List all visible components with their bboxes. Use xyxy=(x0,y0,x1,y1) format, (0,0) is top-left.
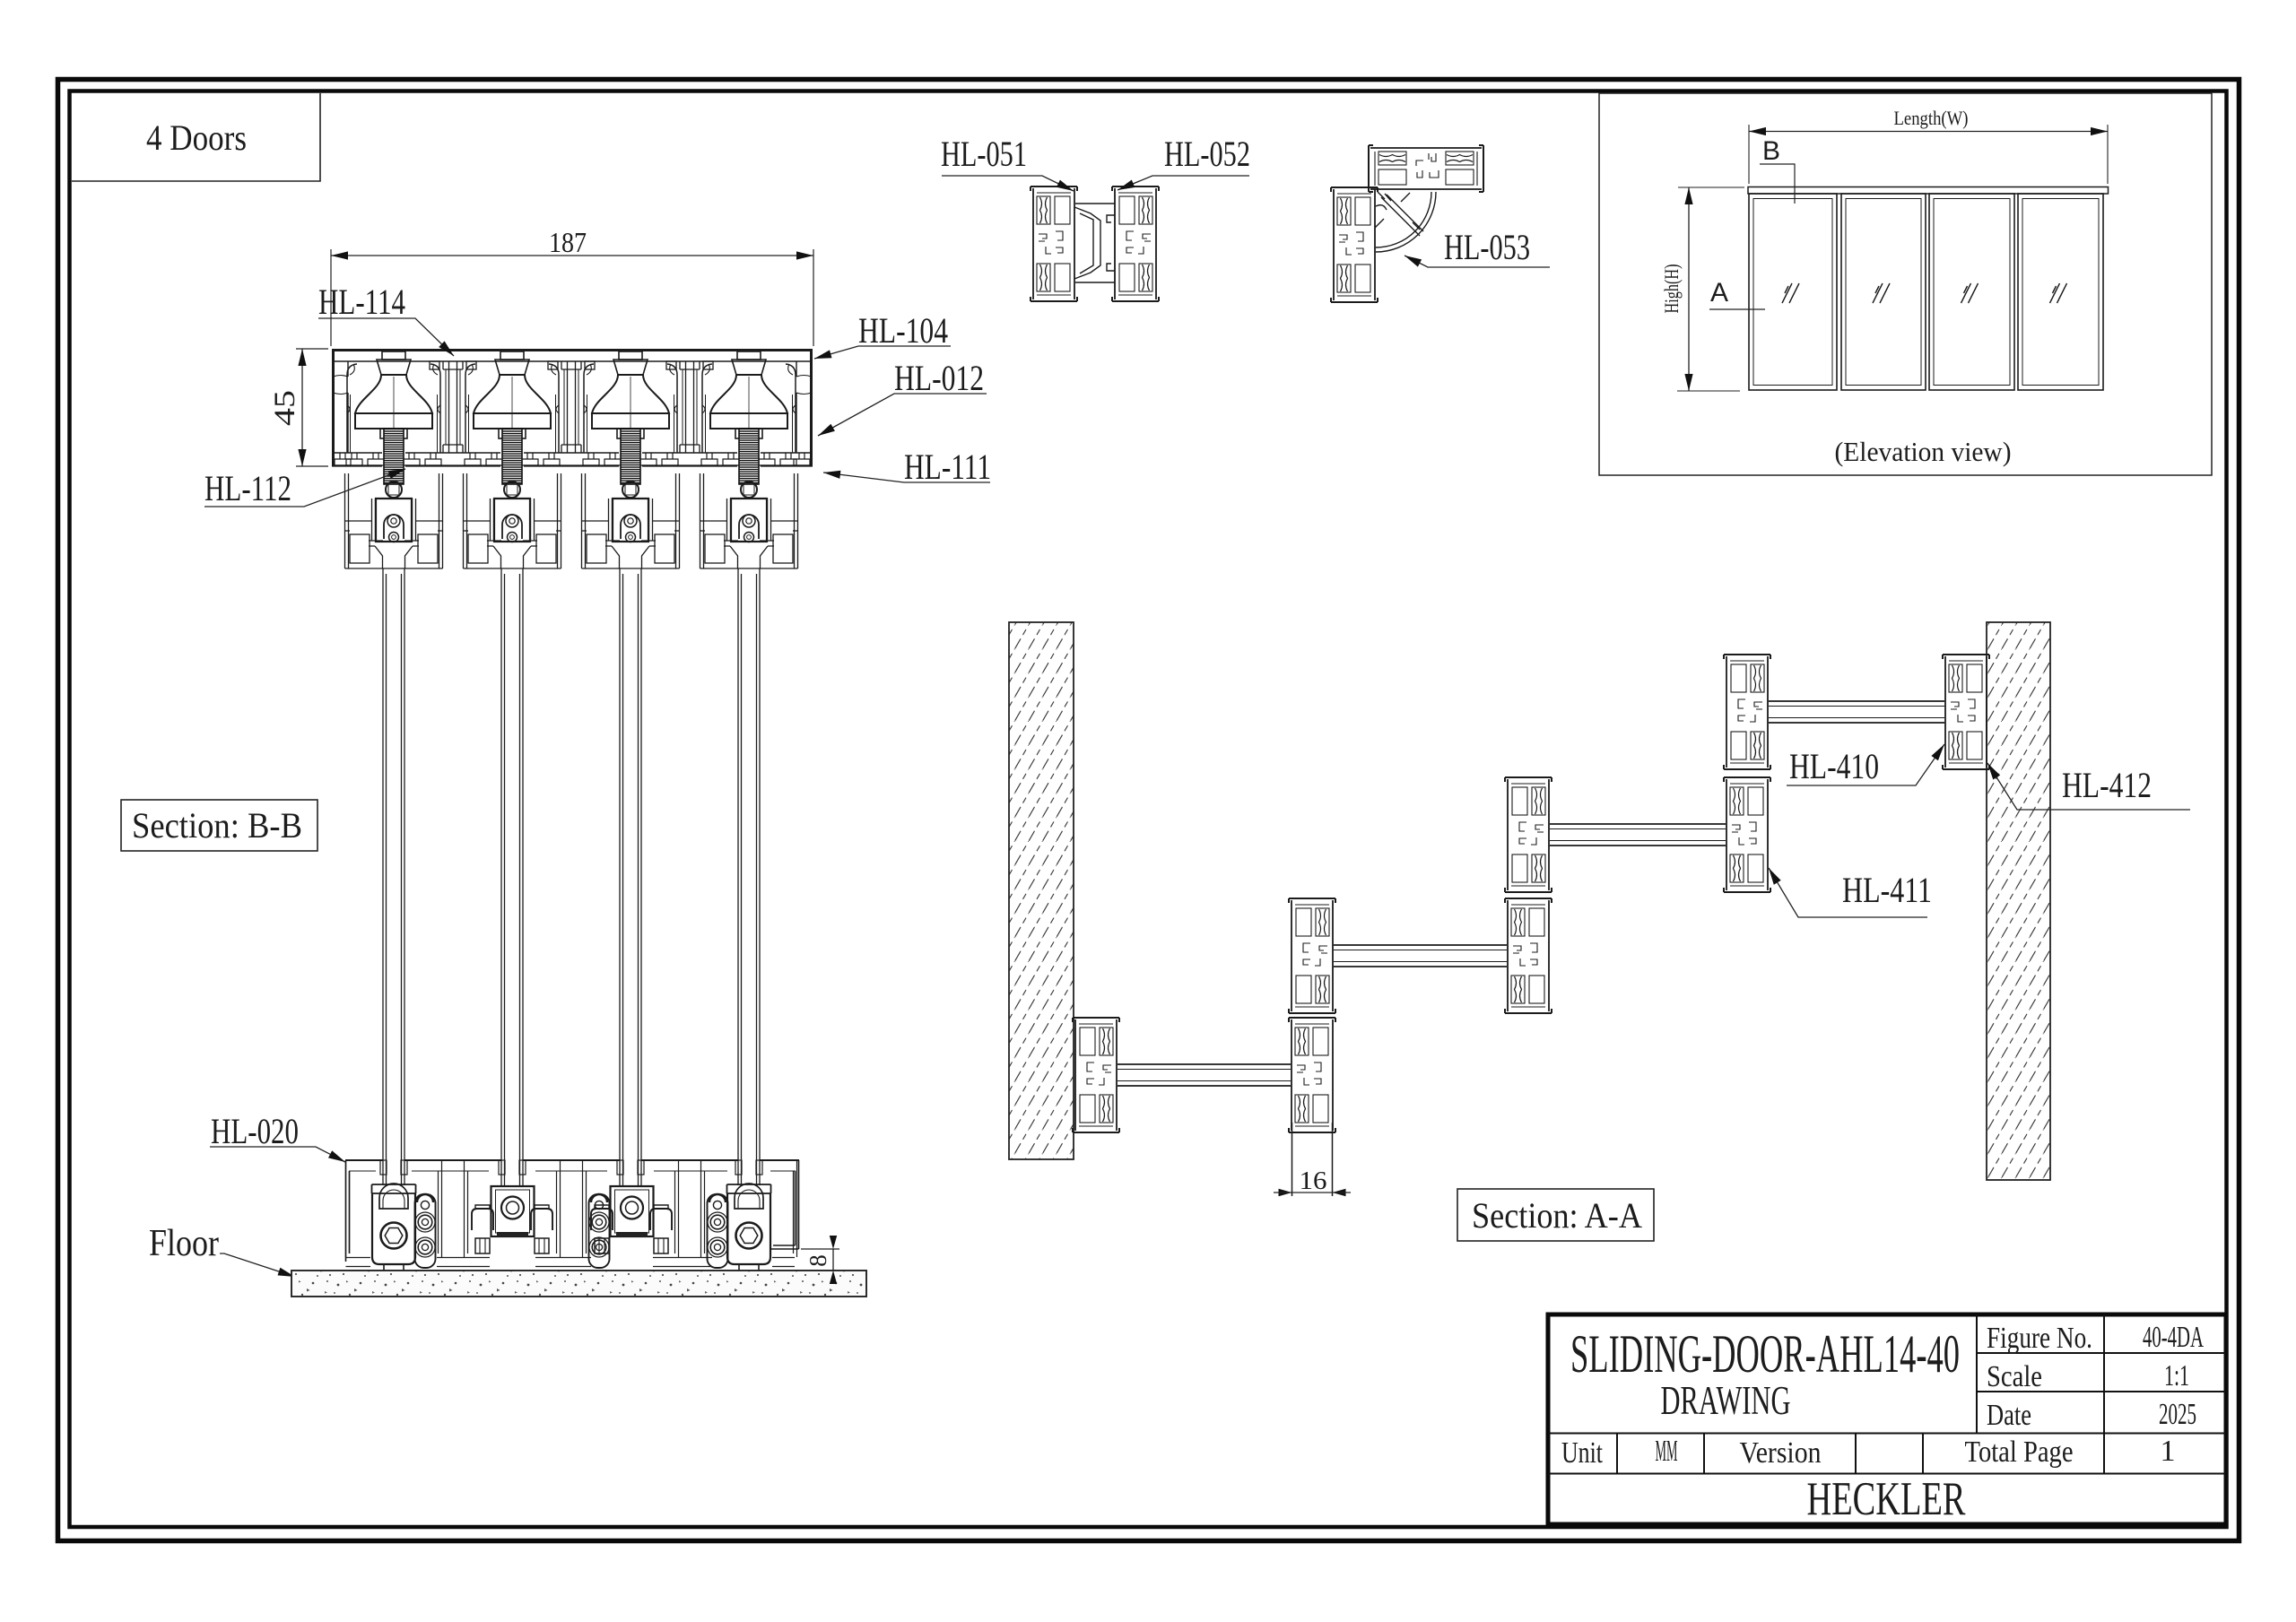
anti-jump roller stack at 474 xyxy=(415,1194,436,1268)
door panel 4 xyxy=(738,568,760,1185)
label Floor with leader xyxy=(149,1223,295,1277)
label HL-114 with leader xyxy=(318,282,454,356)
bottom pivot guide unit 4 (hex bolt type) xyxy=(727,1184,771,1276)
A-A panel 1 left jamb xyxy=(1073,1018,1119,1132)
door top rail profile unit 4 xyxy=(700,473,798,568)
interlock between HL-051/052 xyxy=(1074,204,1115,282)
label HL-020 with leader xyxy=(210,1111,345,1162)
svg-text:40-4DA: 40-4DA xyxy=(2143,1321,2204,1354)
svg-text:4 Doors: 4 Doors xyxy=(146,117,247,158)
corner connector HL-053 xyxy=(1375,192,1436,252)
elevation top track bar xyxy=(1748,187,2109,195)
svg-text:HL-112: HL-112 xyxy=(204,468,291,508)
svg-text:Total Page: Total Page xyxy=(1965,1436,2074,1469)
anti-jump roller stack at 668 xyxy=(589,1194,610,1268)
label HL-012 with leader xyxy=(818,358,987,436)
svg-text:HECKLER: HECKLER xyxy=(1807,1473,1966,1525)
A-A panel 4 right jamb xyxy=(1943,655,1989,769)
bottom rail profile HL-020 xyxy=(345,1160,799,1262)
bottom pivot guide unit 1 (hex bolt type) xyxy=(372,1184,416,1276)
elevation door panel 3 xyxy=(1929,194,2014,390)
track bottom seal fingers HL-111 xyxy=(335,453,810,465)
A-A panel 1 right stile xyxy=(1289,1018,1335,1132)
label HL-051 with leader xyxy=(941,134,1074,191)
label HL-112 with leader xyxy=(204,468,405,508)
svg-text:HL-114: HL-114 xyxy=(318,282,405,322)
svg-text:8: 8 xyxy=(804,1254,831,1267)
svg-text:HL-104: HL-104 xyxy=(858,310,948,351)
svg-text:1: 1 xyxy=(2161,1435,2176,1468)
elevation door panel 2 xyxy=(1841,194,1926,390)
threaded rod unit 2 xyxy=(502,429,522,484)
"4 Doors" box xyxy=(72,93,320,181)
threaded rod unit 3 xyxy=(621,429,640,484)
label HL-053 with leader xyxy=(1405,227,1550,267)
bottom rail channel walls xyxy=(346,1160,797,1267)
label HL-052 with leader xyxy=(1118,134,1250,190)
svg-text:HL-410: HL-410 xyxy=(1789,746,1879,786)
panel 2 glass bar xyxy=(1334,945,1507,967)
roller assembly HL-012 unit 1 xyxy=(347,351,440,453)
corner horizontal profile xyxy=(1369,145,1483,192)
label HL-412 with leader xyxy=(1987,763,2190,810)
svg-text:187: 187 xyxy=(549,226,587,258)
A-A panel 2 left stile xyxy=(1289,898,1335,1013)
A-A panel 2 right stile xyxy=(1505,898,1552,1013)
svg-text:Scale: Scale xyxy=(1987,1360,2042,1393)
anti-jump roller stack at 800 xyxy=(708,1194,728,1268)
door panel 2 xyxy=(501,568,523,1185)
A-A panel 3 right stile xyxy=(1724,777,1770,892)
svg-text:HL-412: HL-412 xyxy=(2062,765,2152,805)
svg-text:A: A xyxy=(1710,278,1728,308)
label B with leader xyxy=(1760,136,1795,204)
svg-text:HL-012: HL-012 xyxy=(894,358,984,398)
door top rail profile unit 3 xyxy=(582,473,680,568)
door panel 3 xyxy=(620,568,641,1185)
door top rail profile unit 2 xyxy=(464,473,561,568)
svg-text:Date: Date xyxy=(1987,1399,2031,1432)
dimension 45 xyxy=(269,349,328,466)
svg-text:Length(W): Length(W) xyxy=(1894,107,1969,129)
corner vertical profile xyxy=(1331,187,1378,302)
Section B-B label box xyxy=(121,800,317,851)
elevation door panel 1 xyxy=(1749,194,1837,390)
svg-text:MM: MM xyxy=(1656,1435,1678,1468)
Section A-A label box xyxy=(1457,1189,1654,1241)
panel 3 glass bar xyxy=(1550,824,1726,846)
hanger bracket HL-112 unit 3 xyxy=(613,481,648,542)
title block frame xyxy=(1548,1314,2226,1524)
panel 1 glass bar xyxy=(1118,1064,1291,1086)
roller assembly HL-012 unit 3 xyxy=(584,351,677,453)
right wall hatched xyxy=(1987,622,2050,1180)
svg-text:SLIDING-DOOR-AHL14-40: SLIDING-DOOR-AHL14-40 xyxy=(1570,1324,1960,1383)
svg-text:B: B xyxy=(1762,136,1780,166)
svg-text:HL-051: HL-051 xyxy=(941,134,1027,174)
mullion profile HL-052 xyxy=(1112,186,1159,301)
mullion profile HL-051 xyxy=(1031,186,1077,301)
svg-text:DRAWING: DRAWING xyxy=(1661,1378,1791,1423)
svg-text:2025: 2025 xyxy=(2159,1398,2196,1431)
dimension 8 xyxy=(801,1236,839,1284)
label HL-104 with leader xyxy=(814,310,951,359)
svg-text:45: 45 xyxy=(269,390,301,426)
dimension 16 xyxy=(1274,1167,1351,1196)
svg-text:HL-052: HL-052 xyxy=(1164,134,1250,174)
roller assembly HL-012 unit 4 xyxy=(702,351,796,453)
svg-text:1:1: 1:1 xyxy=(2164,1359,2189,1392)
hanger bracket HL-112 unit 2 xyxy=(494,481,530,542)
left wall hatched xyxy=(1009,622,1074,1159)
top track profile HL-104 outline xyxy=(332,349,813,466)
svg-text:Floor: Floor xyxy=(149,1223,219,1264)
elevation enclosing box xyxy=(1599,93,2212,475)
label A with leader xyxy=(1709,278,1765,309)
svg-text:High(H): High(H) xyxy=(1660,265,1683,314)
A-A panel 3 left stile xyxy=(1505,777,1552,892)
svg-text:Section: B-B: Section: B-B xyxy=(132,805,302,846)
svg-text:16: 16 xyxy=(1300,1167,1327,1195)
floor slab xyxy=(291,1271,866,1297)
svg-text:Section: A-A: Section: A-A xyxy=(1472,1195,1642,1236)
label HL-111 with leader xyxy=(823,447,991,487)
label HL-410 with leader xyxy=(1787,744,1944,786)
dimension High(H) xyxy=(1660,187,1744,391)
svg-text:HL-020: HL-020 xyxy=(211,1111,299,1151)
threaded rod unit 1 xyxy=(384,429,404,484)
roller assembly HL-012 unit 2 xyxy=(465,351,559,453)
door panel 1 xyxy=(383,568,404,1185)
label HL-411 with leader xyxy=(1769,868,1932,917)
svg-text:(Elevation view): (Elevation view) xyxy=(1835,436,2012,467)
svg-text:Version: Version xyxy=(1740,1436,1822,1470)
dimension 187 xyxy=(331,226,813,346)
bottom guide wheel unit 3 (roller type) xyxy=(591,1186,672,1253)
svg-text:HL-053: HL-053 xyxy=(1444,227,1530,267)
bottom guide wheel unit 2 (roller type) xyxy=(472,1186,552,1253)
svg-text:HL-411: HL-411 xyxy=(1842,870,1932,910)
track mullion connectors HL-114 xyxy=(430,361,713,453)
svg-text:HL-111: HL-111 xyxy=(904,447,991,487)
elevation door panel 4 xyxy=(2018,194,2103,390)
dimension Length(W) xyxy=(1749,107,2108,184)
svg-text:Figure No.: Figure No. xyxy=(1987,1322,2092,1355)
panel 4 glass bar xyxy=(1769,701,1944,723)
A-A panel 4 left stile xyxy=(1724,655,1770,769)
hanger bracket HL-112 unit 4 xyxy=(731,481,767,542)
hanger bracket HL-112 unit 1 xyxy=(376,481,412,542)
panel 1 glass tail xyxy=(1292,1123,1333,1196)
threaded rod unit 4 xyxy=(739,429,759,484)
svg-text:Unit: Unit xyxy=(1561,1436,1603,1470)
door top rail profile unit 1 xyxy=(345,473,443,568)
